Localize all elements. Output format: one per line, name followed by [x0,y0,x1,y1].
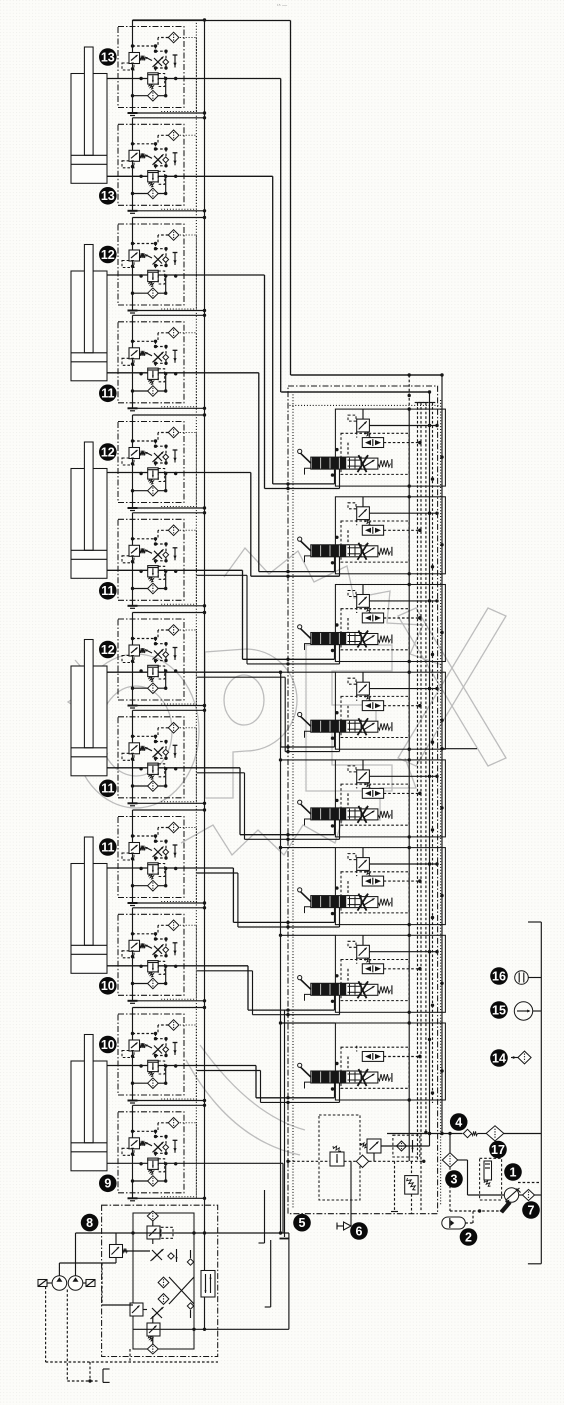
wire branch 12 [107,1065,256,1067]
unload solid link [381,1145,430,1147]
svg-text:16: 16 [492,969,506,983]
svg-text:11: 11 [101,387,114,401]
wire loop tap upper block L11 [133,1007,205,1009]
hydraulic cylinder C2 [71,245,107,381]
wire loop tap upper block L7 [133,612,205,614]
pilot-operated check block L5 (callout 12) [118,415,196,511]
drain dashed lines [45,1287,47,1363]
watermark letter X [398,608,506,766]
wire loop tap lower block L9 [133,902,205,904]
svg-text:¹⁵ —: ¹⁵ — [277,3,287,9]
wire loop tap lower block L11 [133,1100,205,1102]
legend item 15 [514,1002,532,1020]
callout 11 [99,838,117,856]
svg-text:4: 4 [455,1115,462,1129]
wire loop tap upper block L1 [133,19,205,21]
directional valve block V6 [298,846,446,927]
wire loop tap lower block L7 [133,705,205,707]
bank second bus [282,391,430,393]
pump shafts [38,1280,47,1287]
wire loop tap upper block L3 [133,217,205,219]
wire branch 5 [107,372,259,374]
supply line P [387,1133,463,1135]
pump unit enclosure [102,1205,218,1356]
line 3 to pump [458,1159,468,1161]
svg-text:12: 12 [101,248,115,262]
delivery diamond 7 [519,1194,523,1196]
wire companion 3 [197,574,247,576]
callout 12 [99,246,117,264]
wire loop tap lower block L6 [133,605,205,607]
bank top pilot bus [291,374,442,376]
unload valve W [367,1139,381,1153]
wire branch 4 [107,274,265,276]
bank-left vertical links [280,742,282,1233]
check diamond upper [168,1253,174,1259]
callout 17 [489,1141,507,1159]
svg-text:11: 11 [101,840,114,854]
svg-text:14: 14 [492,1051,506,1065]
check diamond bottom manifold [356,1155,368,1167]
svg-text:6: 6 [356,1224,363,1238]
callout 4 [450,1113,468,1131]
svg-text:13: 13 [101,50,115,64]
hydraulic cylinder C4 [71,640,107,776]
bank vertical service buses [408,375,410,410]
wire loop tap lower block L4 [133,407,205,409]
wire pair6 lower branch [107,1162,283,1164]
check+arrow right upper [187,1259,193,1265]
valve D [147,1323,160,1336]
directional valve block V2 [298,495,446,576]
svg-text:11: 11 [101,782,114,796]
throttle lower [152,1308,162,1318]
legend bracket [540,922,542,1264]
callout 5 [293,1214,311,1232]
wire loop tap lower block L5 [133,507,205,509]
wire companion 4 [197,676,285,678]
case drain dashed [518,1182,541,1184]
valve B left [110,1245,123,1258]
wire companion 8 [197,1070,261,1072]
pilot drop to valve 1 [494,1141,496,1158]
directional valve block V3 [298,583,446,664]
watermark letter E [306,645,392,791]
pilot-operated check block L7 (callout 12) [118,613,196,709]
left column dotted rail [195,20,197,1198]
pilot-operated check block L10 (callout 10) [118,908,196,1004]
bottom diamond [147,1344,158,1354]
wire loop tap lower block L10 [133,1000,205,1002]
svg-text:10: 10 [101,979,115,993]
svg-text:5: 5 [299,1216,306,1230]
hydraulic cylinder C5 [71,837,107,973]
throttle upper [152,1250,162,1260]
callout 11 [99,780,117,798]
wire companion 6 [197,872,238,874]
valve block 1 dashed box [480,1158,502,1200]
callout 8 [81,1214,99,1232]
relief valve bottom-left [330,1152,344,1166]
callout 11 [99,582,117,600]
stub ticks [264,1190,266,1243]
wire loop tap upper block L12 [133,1104,205,1106]
wire loop tap lower block L12 [133,1197,205,1199]
svg-text:8: 8 [86,1216,93,1230]
suction diamond 3 [442,1153,457,1167]
wire loop tap upper block L4 [133,314,205,316]
bottom manifold pilot line [288,1160,330,1162]
pilot-operated check block L12 (callout 9) [118,1105,196,1201]
hydraulic cylinder C3 [71,442,107,578]
callout 3 [445,1170,463,1188]
wire loop tap upper block L6 [133,512,205,514]
directional valve block V8 [298,1021,446,1102]
wire loop tap upper block L8 [133,709,205,711]
wire branch 7 [107,569,243,571]
valve bank enclosure dotted inner [292,392,294,1209]
directional valve block V1 [298,407,446,488]
cross links [169,1277,194,1304]
mid-height datum tick [442,748,477,750]
legend item 16 [515,971,529,985]
callout 10 [99,977,117,995]
drain bracket symbol [102,1369,104,1382]
wire branch 11 [107,965,248,967]
callout 13 [99,48,117,66]
callout 2 [460,1228,478,1246]
svg-text:12: 12 [101,643,115,657]
svg-text:11: 11 [101,584,114,598]
svg-text:9: 9 [104,1177,111,1191]
hydraulic cylinder C1 [71,47,107,183]
pump unit wiring [75,1233,77,1276]
callout 12 [99,443,117,461]
wire loop tap upper block L9 [133,809,205,811]
svg-text:17: 17 [491,1143,505,1157]
wire branch 10 [107,867,233,869]
legend item 14 [518,1051,531,1064]
wire branch 1 [133,20,291,22]
wire loop tap lower block L1 [133,112,205,114]
pilot-operated check block L3 (callout 12) [118,218,196,314]
accumulator 2 [449,1167,451,1211]
svg-text:12: 12 [101,445,115,459]
pilot-operated check block L8 (callout 11) [118,710,196,806]
watermark gear ring [224,548,442,665]
valve 1 body [484,1161,492,1180]
wire branch 3 [107,175,273,177]
svg-text:15: 15 [492,1003,506,1017]
pump drive arrow [500,1201,512,1214]
callout 7 [522,1201,540,1219]
pilot-operated check block L4 (callout 11) [118,315,196,411]
wire left bus vertical [204,21,206,1330]
wire branch 6 [107,472,251,474]
wire companion 7 [197,970,253,972]
directional valve block V7 [298,934,446,1015]
directional valve block V5 [298,758,446,839]
svg-text:13: 13 [101,189,115,203]
wire loop tap upper block L2 [133,117,205,119]
svg-text:1: 1 [510,1165,517,1179]
filter 17 [486,1126,504,1141]
wire companion 5 [197,772,245,774]
wire loop tap upper block L5 [133,414,205,416]
check+arrow right lower [187,1303,193,1309]
callout 6 [350,1222,368,1240]
pilot-operated check block L2 (callout 13) [118,118,196,214]
callout 1 [504,1163,522,1181]
top diamond [147,1211,158,1221]
svg-text:3: 3 [451,1172,458,1186]
callout 10 [99,1036,117,1054]
pump circles [52,1276,67,1291]
wire branch 9 [107,767,240,769]
bottom manifold dashed box [319,1115,360,1200]
svg-text:7: 7 [528,1203,535,1217]
pump 1 circle [504,1188,518,1202]
wire branch 2 [107,78,281,80]
bus termination caps [415,402,421,404]
right compensator rect [201,1271,215,1298]
port 6 drain [350,1161,352,1226]
valve bank enclosure dash-dot [288,386,438,1214]
valve C [130,1303,143,1316]
svg-text:10: 10 [101,1038,115,1052]
wire loop tap upper block L10 [133,907,205,909]
directional valve block V4 [298,671,446,752]
callout 9 [99,1175,117,1193]
pilot-operated check block L9 (callout 11) [118,810,196,906]
watermark swoosh arcs [186,1060,300,1155]
pilot relief small [405,1176,418,1195]
pilot-operated check block L1 (callout 13) [118,20,196,116]
check valve 4 [463,1129,471,1137]
wire branch 8 [107,671,281,673]
pilot-operated check block L11 (callout 10) [118,1008,196,1104]
wire loop tap lower block L3 [133,310,205,312]
callout 13 [99,187,117,205]
watermark letter O [73,654,199,808]
pilot-operated check block L6 (callout 11) [118,513,196,609]
valve A [147,1226,160,1239]
pump unit inner box [133,1213,194,1349]
filter + check dashed box [393,1135,420,1157]
wire loop tap lower block L8 [133,802,205,804]
callout 12 [99,641,117,659]
watermark letter P [205,649,297,798]
wire loop tap lower block L2 [133,210,205,212]
svg-text:2: 2 [465,1230,472,1244]
filter diamonds center [158,1277,169,1288]
hydraulic cylinder C6 [71,1035,107,1171]
callout 11 [99,385,117,403]
